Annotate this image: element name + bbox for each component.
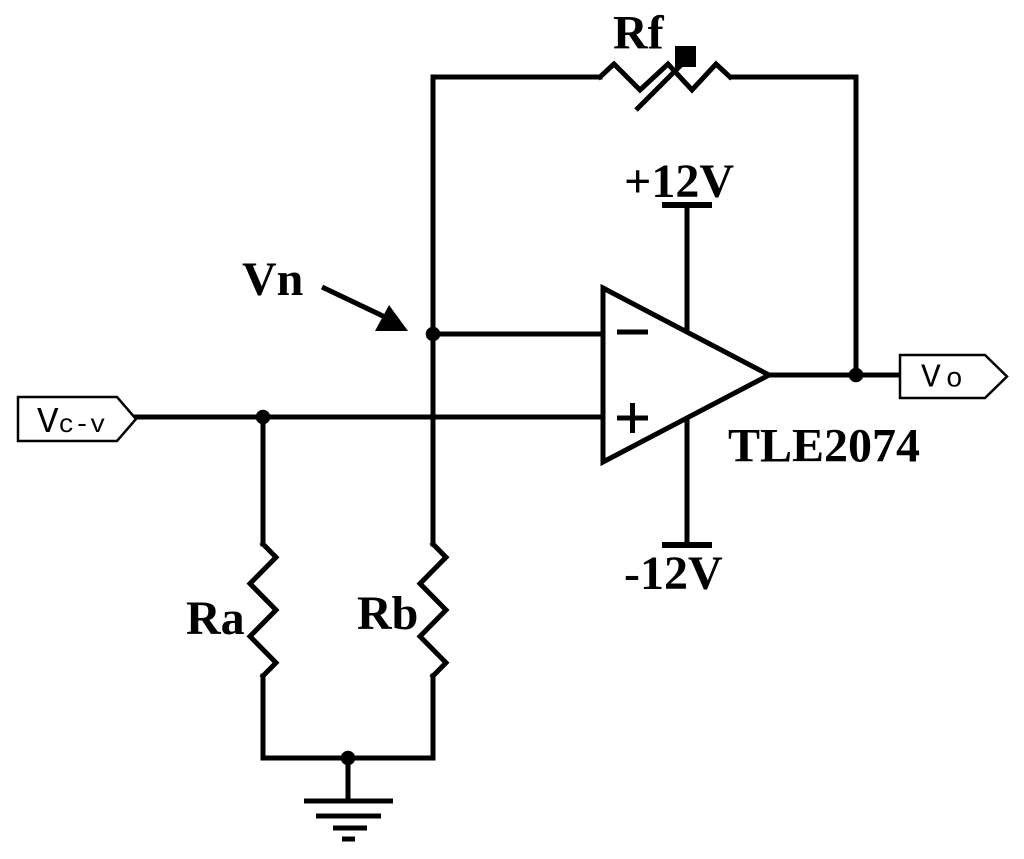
wire ground stem bbox=[346, 758, 351, 801]
svg-text:Rf: Rf bbox=[613, 7, 665, 60]
op-amp U1 triangle bbox=[603, 288, 769, 462]
svg-text:Rb: Rb bbox=[357, 587, 418, 640]
port flag Vo bbox=[900, 355, 1007, 398]
resistor Rb zigzag bbox=[420, 544, 446, 676]
svg-text:TLE2074: TLE2074 bbox=[728, 420, 920, 473]
svg-text:-12V: -12V bbox=[624, 547, 723, 600]
wire Ra top vertical bbox=[261, 417, 266, 544]
svg-text:+12V: +12V bbox=[624, 155, 734, 208]
ground symbol bbox=[304, 801, 393, 839]
wire Rb bottom vertical bbox=[431, 676, 436, 758]
wire non-inverting input (Vc-v flag to op-amp plus) bbox=[136, 415, 606, 420]
Vn pointer arrow shaft bbox=[322, 287, 385, 317]
node output junction dot bbox=[849, 368, 864, 383]
wire top horizontal right segment from Rf bbox=[731, 75, 856, 80]
Rf wiper arrowhead bbox=[675, 46, 696, 67]
node Vn junction dot bbox=[426, 327, 441, 342]
Rf wiper arrow shaft bbox=[636, 62, 684, 110]
resistor Ra zigzag bbox=[250, 544, 276, 676]
wire feedback-loop left vertical (Vn net, x=433) bbox=[431, 77, 436, 544]
power bar +12V bbox=[662, 202, 712, 208]
resistor Rf (variable) zigzag bbox=[600, 64, 730, 90]
port flag Vc-v bbox=[18, 397, 136, 441]
wire top horizontal left segment to Rf bbox=[433, 75, 600, 80]
Vn pointer arrowhead bbox=[375, 305, 408, 331]
wire bottom horizontal joining Ra and Rb bbox=[263, 756, 433, 761]
svg-text:Ra: Ra bbox=[186, 592, 245, 645]
op-amp plus input symbol bbox=[617, 403, 648, 433]
svg-text:Vo: Vo bbox=[921, 360, 968, 397]
svg-text:Vn: Vn bbox=[242, 253, 303, 306]
wire -12V supply stem bbox=[685, 418, 690, 545]
wire feedback-loop right vertical (x=856) bbox=[854, 77, 859, 375]
wire inverting input (Vn node to op-amp minus) bbox=[433, 332, 606, 337]
power bar -12V bbox=[662, 542, 712, 548]
wire +12V supply stem bbox=[685, 205, 690, 332]
node Vc-v / Ra junction dot bbox=[256, 410, 271, 425]
wire op-amp output to Vo flag bbox=[769, 373, 900, 378]
wire Ra bottom vertical bbox=[261, 676, 266, 758]
op-amp minus input symbol bbox=[617, 330, 648, 335]
node ground junction dot bbox=[341, 751, 356, 766]
